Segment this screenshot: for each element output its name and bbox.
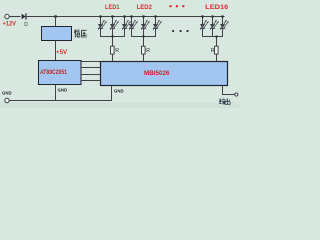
wire regulator to U1 (+5V) xyxy=(55,41,57,62)
LED D16a xyxy=(200,15,209,36)
bus wires U1 to U2 xyxy=(81,62,101,81)
resistor R (group 2) xyxy=(142,36,146,62)
LED D2b xyxy=(141,15,150,36)
input terminal +12V xyxy=(5,14,9,18)
svg-text:GND: GND xyxy=(2,91,12,97)
LED D16c xyxy=(220,15,229,36)
black ellipsis dots xyxy=(172,30,189,32)
svg-text:GND: GND xyxy=(58,88,68,94)
LED D1c xyxy=(122,15,131,36)
LED D2a xyxy=(129,15,138,36)
output terminal xyxy=(235,93,238,96)
svg-text:GND: GND xyxy=(114,89,124,95)
LED D1b xyxy=(110,15,119,36)
svg-text:+12V: +12V xyxy=(3,21,17,27)
svg-text:+5V: +5V xyxy=(56,49,68,56)
red ellipsis dots xyxy=(169,5,184,7)
MCU U1 AT89C2051 xyxy=(39,61,82,85)
LED D1a xyxy=(98,15,107,36)
svg-text:D: D xyxy=(24,22,28,28)
LED D2c xyxy=(153,15,162,36)
wire top rail xyxy=(26,16,225,18)
wire rail to regulator xyxy=(55,17,57,27)
wire U2 output xyxy=(223,86,236,95)
svg-text:R: R xyxy=(115,48,119,54)
wire U1 GND pin xyxy=(55,85,57,101)
LED D16b xyxy=(210,15,219,36)
ground terminal xyxy=(5,98,9,102)
diode D xyxy=(22,13,29,27)
LED group 2 bus wire xyxy=(131,36,156,38)
label 稳压 (regulator) xyxy=(74,29,87,37)
resistor R (group 1) xyxy=(111,36,115,62)
label 输出 (output) xyxy=(219,98,230,104)
resistor R (group 16) xyxy=(215,36,219,62)
svg-text:MBI5026: MBI5026 xyxy=(144,70,170,77)
svg-text:R: R xyxy=(146,48,150,54)
wire ground rail xyxy=(9,86,111,101)
svg-text:AT89C2051: AT89C2051 xyxy=(40,69,67,76)
voltage regulator box xyxy=(42,27,72,41)
svg-text:R: R xyxy=(211,48,215,54)
junction node regulator tap xyxy=(54,15,56,17)
svg-text:LED2: LED2 xyxy=(137,4,153,11)
wire input to diode xyxy=(9,16,20,18)
svg-text:LED16: LED16 xyxy=(205,4,229,11)
svg-text:LED1: LED1 xyxy=(105,4,120,11)
LED group 1 bus wire xyxy=(100,36,125,38)
LED driver U2 MBI5026 xyxy=(101,62,228,86)
LED group 16 bus wire xyxy=(202,36,223,38)
